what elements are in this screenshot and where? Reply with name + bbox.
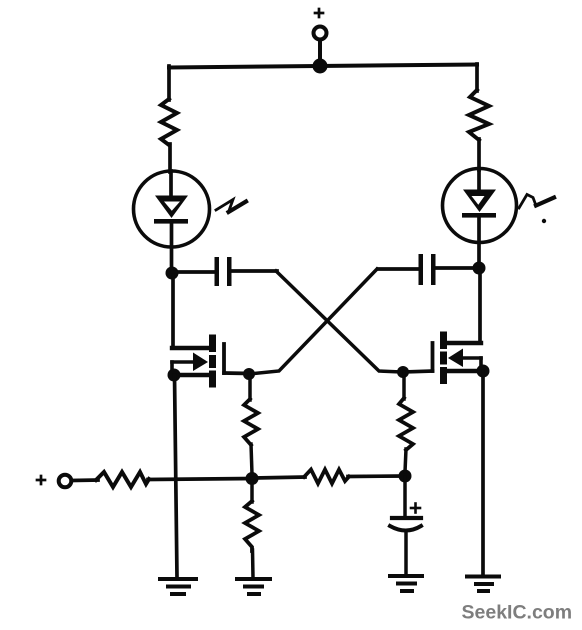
transistor Q1 (n-MOSFET, left) <box>172 335 249 388</box>
wire: C2 to node F <box>436 266 480 270</box>
wire: right rail corner down to R2 <box>475 64 479 91</box>
ground (Q2 source) <box>467 577 499 592</box>
wire: R7 to node E <box>348 474 405 478</box>
capacitor C3 bottom plate (curved) <box>390 526 421 531</box>
resistor R3 (Q1 gate to bias line) <box>244 399 258 445</box>
wire: inside LED1 anode <box>169 171 173 197</box>
Q2 channel bar middle <box>440 352 447 365</box>
LED D2 diode triangle <box>463 190 496 213</box>
wire: diagonal C2 to Q1 gate <box>249 269 377 374</box>
V+ supply terminal circle <box>314 27 327 40</box>
wire: R3 to bias node <box>251 444 252 474</box>
wire: C3 to ground <box>404 531 408 575</box>
Q2 gate bar <box>431 343 435 371</box>
Q1 gate elbow wire <box>224 371 249 375</box>
transistor Q2 (n-MOSFET, right) <box>403 332 483 385</box>
wire: R5 to ground <box>251 550 255 578</box>
plus sign at C3 <box>411 504 420 513</box>
wire: terminal stub to rail <box>318 41 322 64</box>
wire: LED1 cathode to node A <box>170 223 174 268</box>
wire: node C to R3 <box>248 374 252 400</box>
wire: diagonal C1 to Q2 gate <box>276 271 403 372</box>
wire: LED2 cathode to node F <box>477 217 481 263</box>
bias input terminal circle <box>59 475 72 488</box>
resistor R1 (left load) <box>161 99 177 145</box>
wire: inside LED2 anode <box>477 169 481 191</box>
capacitor C2 left plate <box>419 254 424 285</box>
wire: Q1 source to ground <box>175 375 178 578</box>
wire: node D to R5 <box>250 479 254 502</box>
Q1 body-source tie <box>170 362 174 375</box>
resistor R4 (Q2 gate to bias line) <box>399 398 413 450</box>
Q1 channel bar top <box>209 335 216 353</box>
node B: Q1 source <box>168 369 181 382</box>
Q1 channel bar bottom <box>209 371 216 388</box>
LED D1 cathode bar <box>154 219 188 224</box>
plus sign at bias input <box>37 476 45 484</box>
ground (bias divider) <box>237 579 270 594</box>
Q1 gate bar <box>222 344 226 373</box>
wire: left rail corner down to R1 <box>167 66 171 100</box>
wire: node H to R4 <box>402 372 406 399</box>
Q2 channel bar bottom <box>440 367 447 384</box>
capacitor C2 right plate <box>431 254 436 285</box>
wire: R6 to node D <box>148 479 252 480</box>
node F: LED2 cathode / C2 / Q2 drain <box>473 262 486 275</box>
LED D1 light arrows <box>216 200 246 213</box>
node G: Q2 source <box>477 365 490 378</box>
LED D1 circle <box>134 171 210 247</box>
wire: C1 to diagonal start <box>232 269 278 273</box>
Q2 body arrow <box>460 356 481 360</box>
resistor R6 (bias input) <box>96 472 149 487</box>
wire: node D to R7 <box>252 477 305 478</box>
capacitor C1 left plate <box>215 257 220 286</box>
wire: input to Rin <box>72 478 98 482</box>
capacitor C3 top plate <box>392 516 421 520</box>
wire: R2 to LED2 <box>477 139 481 170</box>
LED D2 light arrows <box>519 195 554 224</box>
Q2 source stub <box>447 369 483 373</box>
node H: Q2 gate junction <box>397 366 409 378</box>
node C: Q1 gate junction <box>243 368 255 380</box>
wire: R4 to node E <box>405 449 406 472</box>
Q1 source stub <box>174 373 209 377</box>
resistor R2 (right load) <box>469 90 489 140</box>
ground (Q1 source) <box>160 579 196 594</box>
LED D2 cathode bar <box>462 213 496 218</box>
Q1 body arrow <box>172 360 196 364</box>
wire: node F down to Q2 drain <box>478 268 482 343</box>
resistor R5 (bias to ground) <box>245 501 259 551</box>
node A: LED1 cathode / C1 / Q1 drain <box>166 267 179 280</box>
wire: node E to C3 <box>403 477 407 517</box>
Q2 channel bar top <box>440 332 447 350</box>
node D: bias divider left <box>246 472 259 485</box>
wire: C2 to diagonal start <box>378 267 419 271</box>
svg-text:SeekIC.com: SeekIC.com <box>462 602 573 624</box>
wire: top supply rail <box>169 65 477 68</box>
wire: node A down to Q1 drain <box>171 273 175 348</box>
Q2 body-source tie <box>479 358 483 371</box>
plus sign at V+ terminal <box>315 9 323 17</box>
wire: node A to C1 <box>172 270 215 274</box>
capacitor C1 right plate <box>227 257 232 286</box>
wire: R1 to LED1 <box>168 144 172 172</box>
node E: bias / C3 junction <box>399 470 412 483</box>
wire: Q2 source to ground <box>481 371 485 576</box>
Q2 gate elbow wire <box>403 371 433 372</box>
LED D2 circle <box>443 169 517 243</box>
ground (C3) <box>390 576 422 591</box>
Q1 drain stub <box>172 346 210 350</box>
node: supply rail junction <box>313 59 328 74</box>
resistor R7 (bias line right) <box>304 470 349 484</box>
Q2 drain stub <box>448 341 481 345</box>
LED D1 diode triangle <box>155 196 188 219</box>
Q1 channel bar middle <box>209 355 216 368</box>
